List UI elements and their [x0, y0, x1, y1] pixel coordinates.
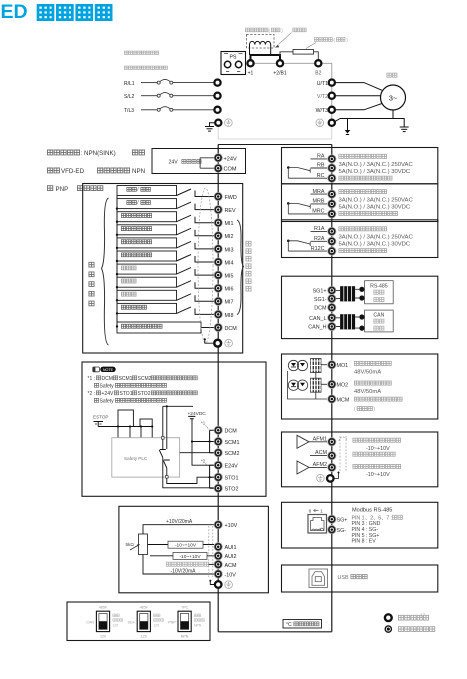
- svg-text:ESTOP: ESTOP: [93, 414, 109, 419]
- terminal SG-: [328, 526, 347, 534]
- relay contact RA: [287, 166, 311, 178]
- potentiometer VR1: [126, 534, 148, 555]
- svg-text:ED: ED: [1, 1, 28, 23]
- label: multi-function input terminals (vertical): [246, 241, 251, 291]
- terminal PE right: [316, 119, 335, 127]
- terminal MO2: [328, 380, 348, 389]
- wire AUI1 with range label: [148, 541, 215, 548]
- svg-text:DCM: DCM: [314, 306, 327, 312]
- wire: control bus top link: [218, 144, 332, 146]
- svg-text:8: 8: [309, 508, 312, 514]
- svg-text:MO2: MO2: [337, 383, 349, 389]
- wire estop common: [98, 426, 152, 428]
- terminal MI8: [214, 310, 233, 319]
- jumper DCM-SCM1-SCM2: [209, 430, 215, 453]
- wire shield to ground terminal: [205, 339, 213, 343]
- svg-text:TPC: TPC: [181, 605, 189, 609]
- svg-text:PIN 8 : EV: PIN 8 : EV: [352, 539, 377, 545]
- box: USB port: [282, 565, 438, 592]
- terminal B2: [315, 60, 321, 66]
- box: relay output RA: [282, 148, 438, 184]
- svg-text:E24V: E24V: [225, 464, 239, 470]
- svg-text:STO2: STO2: [225, 487, 239, 493]
- svg-text:Safety: Safety: [100, 398, 115, 404]
- wire R/L1 to drive terminal: [173, 82, 214, 84]
- svg-text:485F: 485F: [140, 605, 149, 609]
- switch SW1: [86, 605, 122, 638]
- svg-text:USB: USB: [338, 575, 349, 581]
- ground symbol arrow style: [347, 125, 349, 131]
- svg-text:-10V: -10V: [225, 572, 237, 578]
- svg-text:MI3: MI3: [225, 247, 234, 253]
- svg-text:(: (: [354, 407, 356, 413]
- box: RS-485 control: [365, 281, 394, 304]
- terminal RA: [311, 154, 336, 163]
- svg-text:B2: B2: [315, 71, 321, 77]
- label box: temperature detection: [283, 620, 322, 629]
- wire +10V: [143, 519, 214, 534]
- svg-text:17: 17: [420, 613, 426, 618]
- box: analog inputs: [119, 506, 269, 593]
- svg-text:FWD: FWD: [225, 195, 237, 201]
- terminal ACM: [310, 450, 336, 460]
- svg-text:MO1: MO1: [337, 363, 349, 369]
- svg-text:SG+: SG+: [128, 621, 135, 625]
- svg-text:AUI2: AUI2: [225, 554, 237, 560]
- brace: MI terminals: [237, 220, 244, 315]
- svg-text:3A(N.O.) / 3A(N.C.) 250VAC: 3A(N.O.) / 3A(N.C.) 250VAC: [339, 235, 414, 241]
- svg-text:PS: PS: [230, 55, 237, 61]
- box: safety STO section: [82, 362, 266, 496]
- svg-text:NPN: NPN: [181, 634, 189, 638]
- svg-text:MI2: MI2: [225, 234, 234, 240]
- svg-text:-10~+10V: -10~+10V: [179, 554, 201, 560]
- svg-text:5kΩ: 5kΩ: [126, 542, 135, 547]
- svg-text:SCM2: SCM2: [138, 376, 152, 382]
- optocoupler U2: [288, 378, 327, 392]
- terminal R1A: [311, 226, 336, 235]
- svg-text:ACM: ACM: [225, 563, 237, 569]
- svg-text:RA: RA: [317, 154, 325, 160]
- motor M1: [381, 73, 406, 110]
- svg-text:MI7: MI7: [225, 300, 234, 306]
- terminal MI2: [214, 232, 233, 241]
- svg-text:MI1: MI1: [225, 221, 234, 227]
- inductor L1 (DC reactor): [247, 35, 275, 56]
- box: CAN control: [365, 310, 394, 332]
- switch S1 input FWD: [117, 186, 214, 197]
- box: analog outputs AFM: [282, 432, 438, 487]
- terminal SG+: [328, 515, 348, 523]
- label box: digital common: [116, 322, 214, 333]
- svg-text:120: 120: [153, 623, 159, 627]
- wire: jumper between +1 and +2/B1: [251, 55, 281, 63]
- svg-text:R1A: R1A: [314, 226, 325, 232]
- label: jumper strip: [293, 28, 306, 32]
- svg-text:V/T2: V/T2: [317, 94, 328, 100]
- svg-text:*2 :: *2 :: [88, 391, 96, 397]
- svg-text::: :: [81, 150, 83, 157]
- terminal MI1: [214, 219, 233, 228]
- terminal -10V: [214, 570, 236, 579]
- svg-text:PNP: PNP: [168, 621, 176, 625]
- switch S8 input MI6: [116, 277, 214, 288]
- shield dashes AFM: [340, 436, 346, 471]
- svg-text:*1: *1: [201, 421, 206, 426]
- box: 24V power input: [152, 149, 246, 174]
- wire SCM2 from PLC: [180, 452, 214, 454]
- svg-text:MRB: MRB: [313, 199, 325, 205]
- note line 3: [88, 391, 198, 397]
- svg-text:MI8: MI8: [225, 313, 234, 319]
- svg-text:RB: RB: [317, 163, 325, 169]
- svg-text:+24V: +24V: [102, 391, 114, 397]
- terminal FWD: [214, 192, 237, 201]
- svg-text:120: 120: [100, 634, 106, 638]
- terminal +10V: [214, 521, 238, 529]
- wire brake resistor leads: [280, 52, 318, 59]
- svg-text:MI6: MI6: [225, 287, 234, 293]
- terminal DCM: [214, 426, 237, 435]
- terminal CAN_L: [309, 314, 336, 322]
- note: three-phase power input text: [124, 51, 158, 54]
- svg-text:R2A: R2A: [314, 236, 325, 242]
- terminal MO1: [328, 361, 348, 370]
- box: relay output MRA: [282, 184, 438, 222]
- switch SW3: [168, 605, 204, 638]
- svg-text:CAN_L: CAN_L: [309, 316, 326, 322]
- terminal R12C: [288, 246, 336, 255]
- svg-text:-10~+10V: -10~+10V: [175, 543, 197, 549]
- wire ACM: [209, 563, 215, 565]
- svg-text:RS-485: RS-485: [370, 283, 388, 289]
- jumper E24V-STO1-STO2: [209, 465, 215, 488]
- svg-text:SCM2: SCM2: [225, 451, 240, 457]
- terminal AUI1: [214, 543, 236, 551]
- svg-text:SG1+: SG1+: [313, 289, 327, 295]
- wire: right control bus: [331, 145, 333, 632]
- text: relay spec MRA: [339, 190, 414, 216]
- terminal SG1-: [314, 295, 336, 303]
- wire CAN pair to filter: [336, 318, 340, 327]
- terminal MI3: [214, 245, 233, 254]
- terminal RC: [288, 173, 336, 182]
- svg-text:MRA: MRA: [313, 189, 325, 195]
- svg-text:CAN: CAN: [373, 313, 384, 319]
- switch SW2: [128, 605, 164, 638]
- svg-text:Safety: Safety: [100, 383, 115, 389]
- resistor RB (brake): [280, 50, 318, 60]
- terminal T/L3: [214, 107, 220, 113]
- terminal MI4: [214, 258, 233, 267]
- terminal AFM1: [309, 436, 336, 446]
- svg-text:T/L3: T/L3: [124, 108, 134, 114]
- terminal SCM1: [214, 437, 239, 446]
- note line 1: [88, 376, 198, 382]
- amplifier A1: [297, 435, 309, 448]
- box: communication terminals: [282, 276, 438, 338]
- terminal +1: [247, 60, 253, 66]
- ground symbol left: [205, 127, 214, 132]
- terminal COM: [214, 164, 237, 173]
- safety output contacts: [159, 405, 214, 488]
- svg-text:Safety PLC: Safety PLC: [124, 456, 148, 461]
- switch S4 input MI2: [116, 225, 214, 236]
- terminal V/T2: [317, 93, 335, 100]
- svg-text:485F: 485F: [99, 605, 108, 609]
- wire PE to ground: [210, 123, 215, 126]
- svg-text:CAN: CAN: [86, 621, 94, 625]
- svg-text:AFM1: AFM1: [313, 436, 327, 442]
- svg-text:CAN_H: CAN_H: [308, 325, 326, 331]
- text: relay spec R1A: [339, 227, 414, 253]
- wire PE to rail: [335, 119, 340, 122]
- terminal MI6: [214, 284, 233, 293]
- svg-text:°C: °C: [286, 622, 292, 628]
- filter block RS485: [340, 286, 364, 301]
- svg-text:+1: +1: [248, 71, 254, 77]
- svg-text:STO2: STO2: [138, 391, 151, 397]
- svg-text:RC: RC: [317, 173, 325, 179]
- terminal W/T3: [316, 107, 335, 114]
- svg-text:REV: REV: [225, 208, 236, 214]
- wire W to motor: [336, 104, 382, 110]
- svg-text:MRC: MRC: [312, 209, 324, 215]
- terminal CAN_H: [308, 322, 336, 330]
- wire to +24V/COM: [200, 158, 214, 168]
- svg-text:3~: 3~: [389, 94, 398, 103]
- marker *2: [201, 459, 209, 468]
- terminal DCM: [214, 323, 237, 332]
- terminal STO2: [214, 484, 238, 493]
- ground symbol under motor: [400, 127, 409, 132]
- svg-text:*2: *2: [201, 459, 206, 464]
- wire S/L2 to drive terminal: [173, 95, 214, 97]
- wire U to motor: [336, 83, 382, 91]
- terminal SCM2: [214, 449, 239, 458]
- supply +24VDC battery: [188, 411, 215, 465]
- legend: main circuit terminal: [385, 614, 429, 621]
- terminal MRC: [288, 209, 336, 218]
- note: factory default NPN(SINK) mode: [47, 150, 144, 157]
- svg-text:AFM2: AFM2: [313, 462, 327, 468]
- relay contact MRA: [287, 202, 311, 214]
- svg-text:3A(N.O.) / 3A(N.C.) 250VAC: 3A(N.O.) / 3A(N.C.) 250VAC: [339, 197, 414, 203]
- text Modbus pins: [352, 508, 403, 545]
- label: brake resistor (optional): [314, 38, 332, 42]
- switch S10 input MI8: [116, 303, 214, 314]
- box: relay output R1A: [282, 220, 438, 258]
- wire: faint drive outline verticals: [218, 127, 332, 139]
- box: Modbus RS-485 RJ45: [282, 502, 438, 548]
- switch S2 input REV: [116, 199, 214, 210]
- terminal shield analog: [209, 580, 232, 589]
- svg-text:SG+: SG+: [337, 517, 348, 523]
- svg-text:NPN(SINK): NPN(SINK): [84, 150, 116, 157]
- svg-text:-10~+10V: -10~+10V: [366, 472, 390, 478]
- switch S9 input MI7: [116, 290, 214, 301]
- svg-text:*1 :: *1 :: [88, 376, 96, 382]
- text AFM specs: [353, 438, 401, 478]
- svg-text:-10~+10V: -10~+10V: [366, 446, 390, 452]
- svg-text:SG-: SG-: [337, 528, 347, 534]
- svg-text:Modbus RS-485: Modbus RS-485: [352, 508, 392, 514]
- wire V to motor: [336, 95, 381, 97]
- svg-text:48V/50mA: 48V/50mA: [354, 369, 381, 375]
- text USB port: [338, 575, 368, 581]
- svg-text:AUI1: AUI1: [225, 545, 237, 551]
- legend: control circuit terminal: [385, 625, 435, 633]
- shield dashes analog: [209, 526, 213, 577]
- svg-text:+10V: +10V: [225, 523, 238, 529]
- note: NFB / fuse text: [124, 66, 167, 69]
- svg-text:MI4: MI4: [225, 260, 234, 266]
- contact loop 1: [118, 410, 133, 427]
- svg-text:MCM: MCM: [337, 397, 350, 403]
- svg-text:120: 120: [113, 623, 119, 627]
- svg-text:VFD-ED: VFD-ED: [61, 168, 85, 175]
- connector PS: [221, 52, 246, 75]
- svg-text:3A(N.O.) / 3A(N.C.) 250VAC: 3A(N.O.) / 3A(N.C.) 250VAC: [339, 162, 414, 168]
- svg-text:1: 1: [320, 508, 323, 514]
- wire: DC bus terminal line +1 to B2: [251, 63, 332, 127]
- wire: bottom bus link: [218, 631, 332, 633]
- svg-text:W/T3: W/T3: [316, 108, 329, 114]
- switch S5 input MI3: [116, 238, 214, 249]
- connector J1 RJ45: [308, 508, 327, 533]
- wire SG pair to filter: [336, 290, 340, 298]
- svg-text:COM: COM: [224, 167, 237, 173]
- terminal E24V: [214, 461, 238, 470]
- svg-text:R12C: R12C: [311, 246, 325, 252]
- switch S7 input MI5: [116, 264, 214, 275]
- wire T/L3 to drive terminal: [173, 109, 214, 111]
- svg-text:NOTE: NOTE: [103, 368, 114, 372]
- icon NOTE: [93, 367, 116, 372]
- box: multi-function outputs MO: [282, 354, 438, 419]
- terminal MI5: [214, 271, 233, 280]
- box: Safety PLC: [112, 438, 180, 477]
- terminal PE left: [210, 119, 233, 127]
- terminal R/L1: [214, 80, 220, 86]
- wire: common line of input switches: [116, 196, 118, 327]
- terminal AFM2: [309, 462, 336, 472]
- text MO specs: [354, 361, 402, 412]
- svg-text:+10V/20mA: +10V/20mA: [166, 519, 193, 525]
- wire motor ground rail: [340, 110, 404, 127]
- connector J2 USB: [309, 569, 328, 588]
- wire opto commons to MCM: [288, 371, 328, 399]
- terminal MCM: [328, 395, 350, 404]
- wire: top connector gray: [218, 138, 332, 140]
- svg-text:+24V: +24V: [224, 156, 237, 162]
- svg-text:5A(N.O.) / 3A(N.C.) 30VDC: 5A(N.O.) / 3A(N.C.) 30VDC: [339, 205, 411, 211]
- breaker/fuse for T/L3 input: [124, 107, 214, 114]
- breaker/fuse for R/L1 input: [124, 79, 214, 86]
- svg-text:SCM1: SCM1: [119, 376, 133, 382]
- contact loop 2: [140, 419, 152, 427]
- terminal RB: [311, 163, 336, 172]
- terminal STO1: [214, 473, 238, 482]
- optocoupler U1: [288, 359, 327, 373]
- callout line jumper: [279, 33, 292, 45]
- label analog common: [166, 562, 208, 566]
- terminal DCM: [314, 303, 336, 311]
- terminal MRB: [311, 199, 336, 208]
- svg-text:DCM: DCM: [225, 326, 238, 332]
- terminal +24V: [214, 154, 237, 163]
- svg-text:DCM: DCM: [225, 429, 238, 435]
- wire -10V: [143, 555, 214, 575]
- svg-text:R/L1: R/L1: [124, 81, 135, 87]
- svg-text:NPN: NPN: [194, 623, 202, 627]
- terminal R2A: [311, 236, 336, 245]
- box: DIP switches: [67, 602, 210, 641]
- terminal +2/B1: [277, 60, 283, 66]
- breaker/fuse for S/L2 input: [124, 93, 214, 100]
- svg-text:S/L2: S/L2: [124, 94, 135, 100]
- svg-text:5A(N.O.) / 3A(N.C.) 30VDC: 5A(N.O.) / 3A(N.C.) 30VDC: [339, 242, 411, 248]
- terminal shield AFM: [317, 472, 340, 483]
- svg-text:DCM: DCM: [102, 376, 113, 382]
- label: DC reactor (optional): [245, 28, 268, 32]
- svg-text:): ): [373, 407, 375, 413]
- shield ellipse digital inputs: [198, 188, 213, 343]
- note line 2: [94, 383, 166, 389]
- title: ED wiring diagram heading: [1, 1, 112, 23]
- svg-text:STO1: STO1: [120, 391, 133, 397]
- svg-text:48V/50mA: 48V/50mA: [354, 389, 381, 395]
- switch S3 input MI1: [116, 212, 214, 223]
- svg-text:PNP: PNP: [56, 186, 69, 193]
- filter block CAN: [340, 314, 364, 331]
- brace: factory settings group: [102, 198, 109, 345]
- terminal U/T1: [317, 80, 335, 87]
- terminal ACM: [214, 560, 237, 568]
- terminal REV: [214, 206, 236, 215]
- wires estop to safety plc: [117, 425, 153, 437]
- labels +1 +2/B1 B2: [248, 71, 322, 77]
- marker *1: [201, 421, 209, 430]
- text: relay spec RA: [339, 154, 414, 180]
- svg-text:STO1: STO1: [225, 476, 239, 482]
- svg-text:120: 120: [141, 634, 147, 638]
- svg-text:U/T1: U/T1: [317, 81, 328, 87]
- svg-text:MI5: MI5: [225, 274, 234, 280]
- switch S6 input MI4: [116, 251, 214, 262]
- terminal AUI2: [214, 552, 236, 561]
- terminal shield ground: [214, 339, 232, 347]
- svg-text:NPN: NPN: [132, 168, 145, 175]
- terminal MI7: [214, 297, 233, 306]
- svg-text:+2/B1: +2/B1: [273, 71, 286, 77]
- label: factory default (vertical): [89, 262, 94, 306]
- svg-text:-10V/20mA: -10V/20mA: [171, 569, 197, 575]
- svg-text:SG1-: SG1-: [314, 297, 327, 303]
- terminal MRA: [311, 189, 336, 198]
- box: multi-function digital inputs: [83, 184, 243, 354]
- terminal SG1+: [313, 286, 336, 294]
- svg-text:5A(N.O.) / 3A(N.C.) 30VDC: 5A(N.O.) / 3A(N.C.) 30VDC: [339, 169, 411, 175]
- svg-text:SCM1: SCM1: [225, 440, 240, 446]
- relay contact R1A: [287, 240, 311, 252]
- svg-text:24V: 24V: [169, 160, 179, 166]
- wire: left control bus: [217, 145, 219, 632]
- amplifier A2: [297, 461, 309, 474]
- note line 4: [94, 398, 166, 404]
- terminal S/L2: [214, 93, 220, 99]
- svg-text:ACM: ACM: [315, 450, 327, 456]
